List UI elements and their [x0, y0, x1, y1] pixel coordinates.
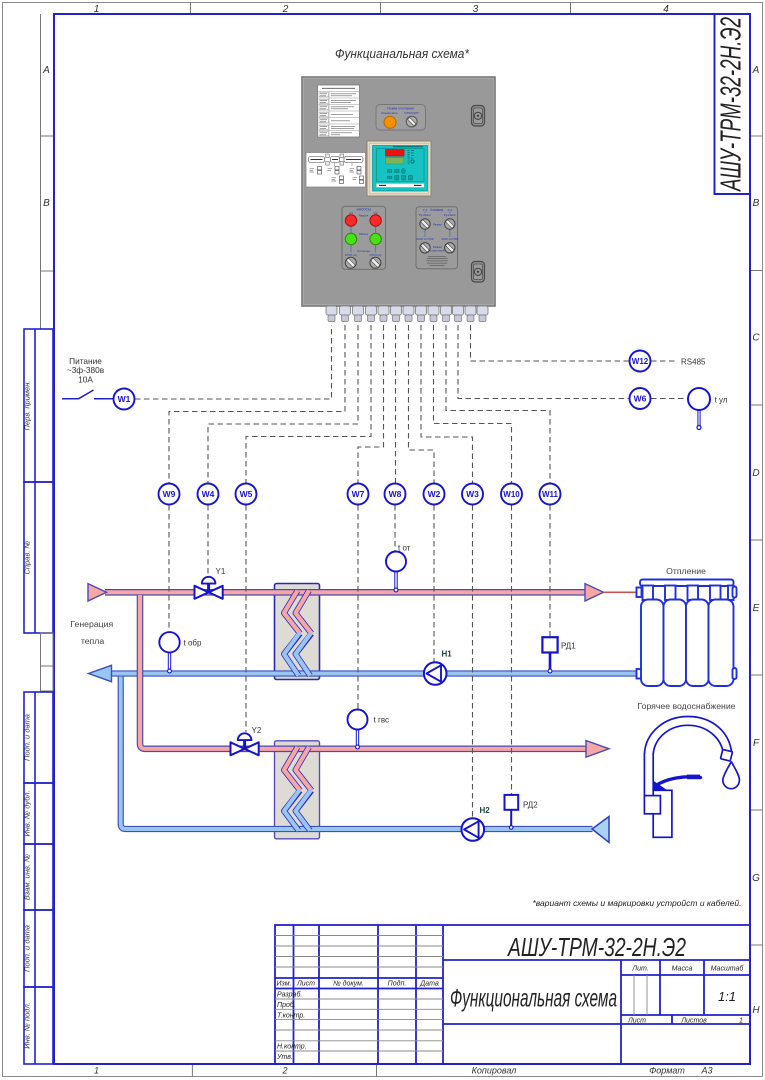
svg-text:~3ф-380в: ~3ф-380в	[67, 365, 105, 375]
svg-text:1: 1	[94, 1066, 99, 1076]
wire W2 drop to H1	[433, 505, 435, 662]
wire W8 run	[395, 325, 397, 483]
svg-text:Т.контр.: Т.контр.	[277, 1012, 305, 1019]
svg-text:E: E	[753, 603, 760, 614]
svg-text:W6: W6	[634, 394, 647, 404]
svg-text:Н2: Н2	[480, 806, 491, 815]
svg-text:Подп. и дата: Подп. и дата	[23, 714, 32, 761]
wire W11 run	[446, 325, 550, 483]
svg-text:Листов: Листов	[680, 1018, 707, 1025]
wire W2 run	[409, 325, 435, 483]
svg-text:1:1: 1:1	[718, 989, 736, 1004]
svg-text:Инв. № подл.: Инв. № подл.	[23, 1002, 32, 1049]
svg-text:Дата: Дата	[419, 981, 439, 988]
cold water line DHW loop	[121, 677, 593, 830]
svg-text:W1: W1	[118, 394, 131, 404]
svg-text:1: 1	[739, 1018, 743, 1025]
node label Генерация тепла	[70, 619, 113, 646]
LEFT-GOST-BOXES	[24, 329, 53, 1064]
svg-text:W7: W7	[352, 489, 365, 499]
svg-text:РД1: РД1	[561, 642, 576, 651]
svg-text:C: C	[752, 333, 760, 344]
sensor t гвс	[348, 710, 368, 749]
sensor t обр	[159, 632, 179, 673]
cable W4	[198, 484, 219, 505]
svg-text:t ул: t ул	[715, 396, 728, 405]
riser hot to DHW loop	[140, 595, 586, 749]
return pipe (cold, loop 1)	[111, 670, 641, 676]
svg-text:ОТКЛ-(А): ОТКЛ-(А)	[369, 253, 381, 257]
lock bottom-right	[472, 262, 485, 283]
svg-text:A: A	[42, 65, 50, 76]
svg-text:Перв. примен.: Перв. примен.	[23, 381, 32, 431]
svg-text:Разраб.: Разраб.	[277, 991, 302, 999]
cable W1	[114, 389, 135, 410]
cable W12	[630, 351, 651, 372]
wire W9 run	[169, 325, 345, 483]
radiator (Отпление)	[637, 580, 737, 687]
valves sub-panel (Клапаны)	[416, 207, 459, 269]
cable W3	[462, 484, 483, 505]
svg-text:тепла: тепла	[81, 636, 104, 646]
wire W12 run	[471, 325, 630, 361]
svg-text:t гвс: t гвс	[374, 716, 390, 725]
legend table (white)	[318, 85, 360, 137]
svg-text:t от: t от	[398, 544, 411, 553]
flow arrow: cold water in	[592, 817, 609, 843]
tap (Горячее водоснабжение)	[644, 717, 739, 838]
svg-text:Лист: Лист	[627, 1018, 646, 1025]
svg-text:2: 2	[281, 1066, 287, 1076]
svg-text:Справ. №: Справ. №	[23, 540, 32, 574]
bottom zone numbers and captions	[94, 1066, 713, 1076]
power feed label	[67, 356, 105, 385]
cable W2	[424, 484, 445, 505]
flow arrow: DHW supply out	[586, 741, 609, 758]
svg-text:Генерация: Генерация	[70, 619, 113, 629]
cable W5	[236, 484, 257, 505]
wire W12 tail to RS485	[651, 360, 676, 362]
svg-text:ЗАКР-0-ОТКР: ЗАКР-0-ОТКР	[416, 237, 433, 241]
svg-text:Проб.: Проб.	[277, 1001, 296, 1009]
svg-text:Подп. и дата: Подп. и дата	[23, 925, 32, 972]
svg-text:Режим авто: Режим авто	[381, 111, 398, 115]
svg-text:ОТКЛ-(А): ОТКЛ-(А)	[345, 253, 357, 257]
PIPING-LAYER	[88, 580, 739, 843]
flow arrow: heat source return out	[89, 665, 112, 681]
PANEL-LAYER	[302, 77, 495, 322]
cable W9	[159, 484, 180, 505]
wire W10 run	[434, 325, 512, 483]
flow arrow: to heating circuit	[585, 584, 604, 601]
svg-text:Н.контр.: Н.контр.	[277, 1044, 307, 1051]
svg-text:H: H	[752, 1005, 760, 1016]
svg-text:Масса: Масса	[672, 966, 693, 973]
svg-text:Режим отопления: Режим отопления	[387, 106, 414, 110]
svg-text:A: A	[752, 65, 760, 76]
svg-text:Утв.: Утв.	[276, 1054, 293, 1061]
svg-text:W9: W9	[163, 489, 176, 499]
mode sub-panel (Режим отопления)	[376, 105, 426, 131]
svg-text:W10: W10	[503, 490, 520, 499]
wire W4 run	[208, 325, 358, 483]
top tick dividers	[191, 3, 571, 15]
cable W7	[348, 484, 369, 505]
svg-text:ОТКЛ/ЭЛТ: ОТКЛ/ЭЛТ	[404, 111, 419, 115]
WIRING-LAYER	[62, 325, 728, 818]
orange button	[384, 116, 396, 128]
wire W8 drop to t от	[394, 505, 396, 551]
svg-text:локальный: локальный	[430, 248, 445, 252]
svg-text:Авария: Авария	[359, 214, 369, 218]
svg-text:Клапаны: Клапаны	[430, 208, 444, 212]
svg-text:W4: W4	[202, 489, 215, 499]
sensor t от	[386, 552, 406, 592]
svg-text:У-2: У-2	[448, 208, 453, 212]
svg-text:RS485: RS485	[681, 358, 706, 367]
svg-text:№ докум.: № докум.	[333, 980, 364, 988]
top zone numbers	[94, 4, 670, 15]
svg-text:Руч/Авто: Руч/Авто	[444, 213, 456, 217]
bottom tick dividers	[192, 1064, 376, 1077]
wire W1 run	[135, 325, 332, 399]
svg-text:Инв. № дубл.: Инв. № дубл.	[23, 790, 32, 836]
flow arrow: heat source supply in	[88, 584, 107, 601]
heat exchanger T2 body	[275, 741, 320, 839]
power switch QF	[62, 390, 113, 399]
svg-text:Н1: Н1	[349, 211, 353, 215]
cable glands	[326, 306, 488, 322]
wire W7 drop to t гвс	[357, 505, 359, 709]
svg-text:Копировал: Копировал	[472, 1066, 517, 1076]
svg-text:АШУ-ТРМ-32-2Н.Э2: АШУ-ТРМ-32-2Н.Э2	[507, 932, 687, 962]
pump H2	[462, 818, 485, 841]
svg-text:АШУ-ТРМ-32-2Н.Э2: АШУ-ТРМ-32-2Н.Э2	[716, 17, 748, 192]
svg-text:Подп.: Подп.	[388, 980, 407, 988]
svg-text:Функциональная схема: Функциональная схема	[450, 985, 617, 1013]
svg-text:Работа: Работа	[359, 232, 369, 236]
svg-text:Горячее водоснабжение: Горячее водоснабжение	[637, 701, 735, 711]
wire W10 drop to РД2	[511, 505, 513, 794]
wiring diagram plate (white)	[306, 153, 366, 188]
svg-text:Масштаб: Масштаб	[711, 965, 745, 973]
svg-text:W11: W11	[542, 490, 559, 499]
wire W5 drop to Y2	[245, 505, 247, 732]
wire W3 run	[421, 325, 473, 483]
svg-text:D: D	[752, 468, 759, 479]
pressure switch РД2	[505, 795, 519, 829]
svg-text:Режим: Режим	[433, 222, 442, 226]
valve Y1	[195, 577, 223, 599]
svg-text:B: B	[43, 198, 50, 209]
controller with screen	[367, 141, 431, 196]
wire W11 drop to РД1	[549, 505, 551, 637]
pressure switch РД1	[542, 637, 557, 673]
svg-text:G: G	[752, 873, 760, 884]
pump H1	[424, 662, 447, 685]
svg-text:W5: W5	[240, 489, 253, 499]
supply pipe (hot, loop 1)	[105, 589, 585, 596]
svg-text:Y1: Y1	[216, 567, 226, 576]
wire W3 drop to H2	[472, 505, 474, 818]
wire W7 run	[358, 325, 384, 483]
wire W9 drop to t обр	[168, 505, 170, 631]
svg-text:10А: 10А	[78, 375, 93, 385]
COMPONENTS-LAYER	[70, 544, 735, 841]
svg-text:Лист: Лист	[296, 981, 315, 988]
svg-text:B: B	[753, 198, 760, 209]
svg-text:Функцианальная схема*: Функцианальная схема*	[335, 46, 470, 61]
valve Y2	[231, 733, 259, 755]
svg-text:Лит.: Лит.	[631, 966, 648, 973]
cable W8	[385, 484, 406, 505]
svg-text:НАСОСЫ: НАСОСЫ	[357, 207, 371, 211]
svg-text:t обр: t обр	[184, 639, 202, 648]
TITLE-BLOCK	[275, 925, 750, 1064]
svg-text:W3: W3	[466, 489, 479, 499]
thin pipe to radiator	[604, 591, 641, 593]
cable W11	[540, 484, 561, 505]
HE2 zigzag circuit	[284, 747, 312, 831]
svg-text:Формат: Формат	[649, 1066, 685, 1076]
cable W10	[501, 484, 522, 505]
right row-letter dividers	[750, 136, 763, 945]
svg-text:А3: А3	[700, 1066, 712, 1076]
lock top-right	[472, 106, 485, 127]
rotary selector	[406, 116, 417, 127]
svg-text:*вариант схемы и маркировки ус: *вариант схемы и маркировки устройст и к…	[532, 898, 741, 908]
svg-text:Н2: Н2	[374, 211, 378, 215]
left row-letter column	[40, 14, 42, 329]
wire W6 run	[458, 325, 629, 399]
wire W4 drop to Y1	[207, 505, 209, 576]
svg-text:W12: W12	[632, 357, 649, 366]
svg-text:Y2: Y2	[252, 726, 262, 735]
heat exchanger T1 body	[275, 584, 320, 680]
svg-text:У-1: У-1	[423, 208, 428, 212]
svg-text:ЗАКР-0-ОТКР: ЗАКР-0-ОТКР	[441, 237, 458, 241]
pumps sub-panel (НАСОСЫ)	[342, 206, 386, 269]
svg-text:Руч/Авто: Руч/Авто	[419, 213, 431, 217]
svg-text:W8: W8	[389, 489, 402, 499]
wire W5 run	[246, 325, 371, 483]
HE1 zigzag circuit	[284, 591, 312, 676]
svg-text:F: F	[753, 738, 760, 749]
control cabinet body	[302, 77, 495, 306]
wire W6 tail to outdoor sensor	[651, 398, 687, 400]
svg-text:W2: W2	[428, 489, 441, 499]
svg-text:Изм.: Изм.	[277, 981, 292, 988]
TOP-RIGHT designation box	[715, 14, 751, 194]
svg-text:Отпление: Отпление	[666, 566, 706, 576]
svg-text:Взам. инв. №: Взам. инв. №	[23, 854, 32, 900]
outdoor sensor t ул	[688, 388, 710, 430]
svg-text:Н1: Н1	[442, 650, 453, 659]
svg-text:РД2: РД2	[523, 801, 538, 810]
cable W6	[630, 388, 651, 409]
